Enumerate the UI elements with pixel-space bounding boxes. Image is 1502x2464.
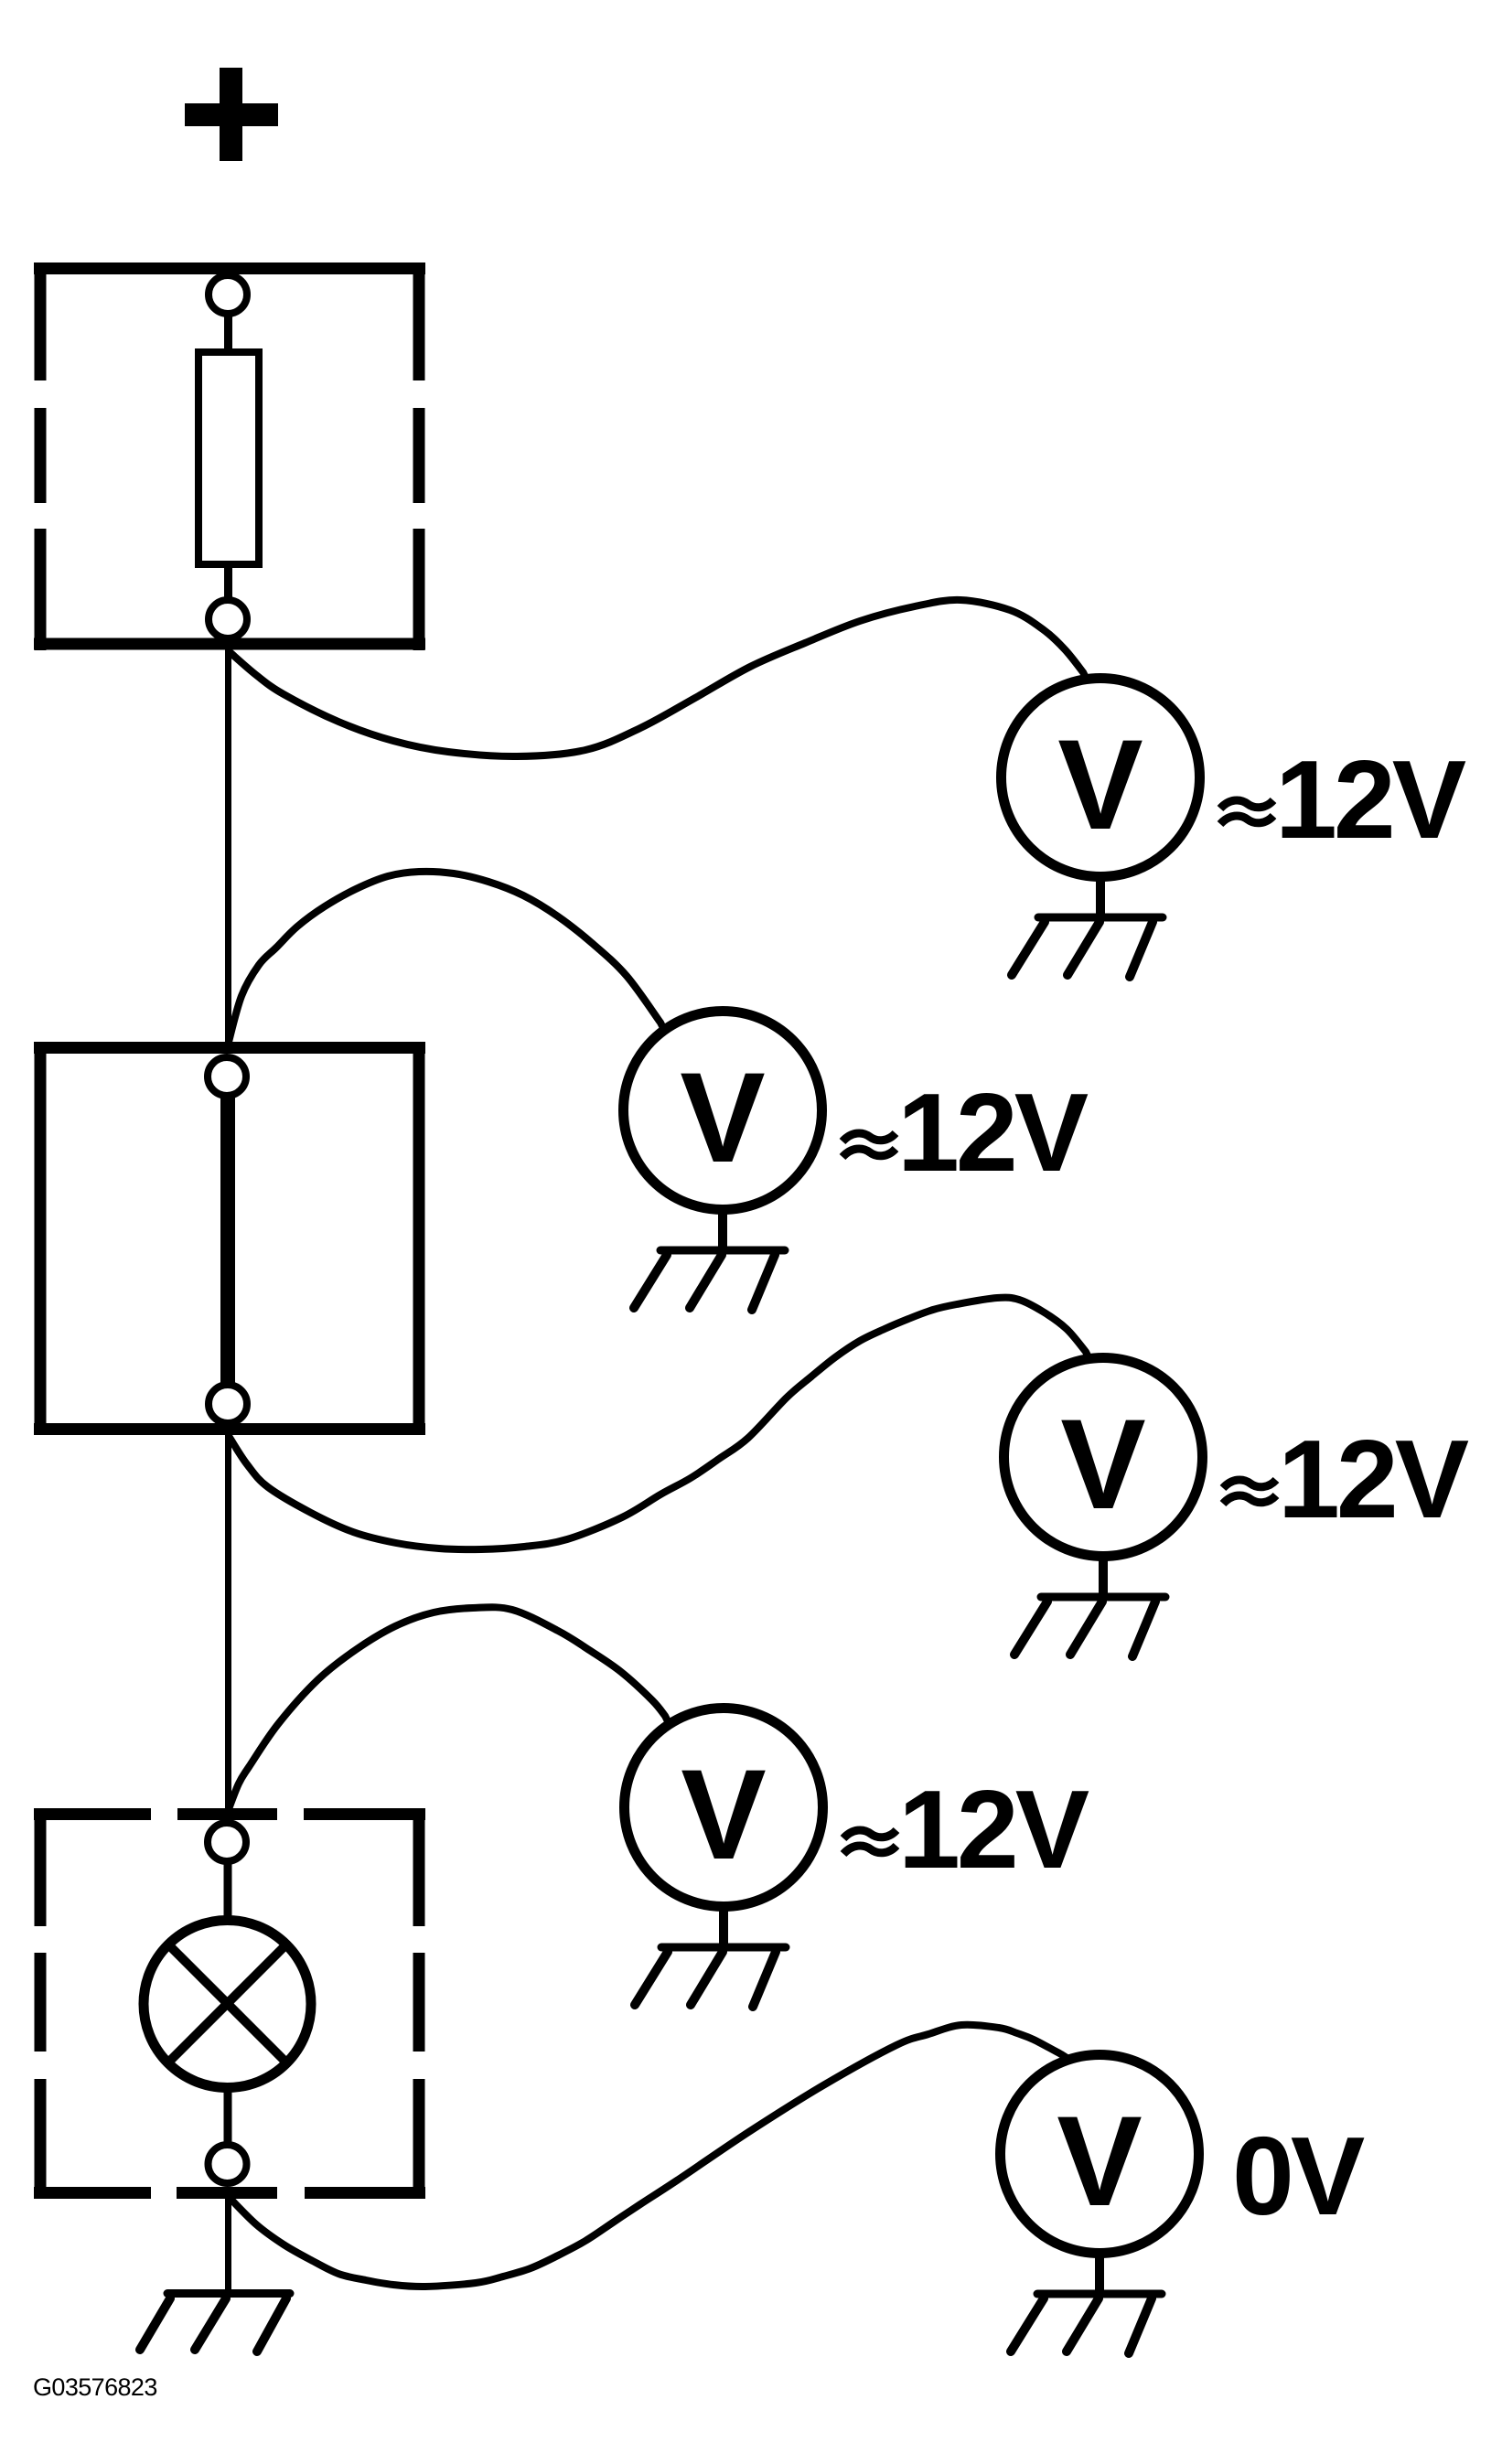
switch box (solid component box)	[34, 1042, 425, 1435]
terminal (lamp top pin)	[208, 1823, 246, 1861]
wire (node D to voltmeter V4)	[229, 1607, 669, 1809]
wire (fuse box to switch box)	[225, 638, 231, 1048]
fuse F1	[198, 352, 259, 564]
svg-text:12V: 12V	[898, 1767, 1089, 1891]
ground (voltmeter V2 ground)	[634, 1209, 785, 1310]
wire (terminal to lamp)	[224, 1859, 232, 1921]
svg-text:V: V	[680, 1045, 765, 1189]
label approx 12V (V4)	[843, 1767, 1089, 1891]
wire (terminal to fuse)	[224, 314, 232, 352]
voltmeter V1	[1002, 679, 1200, 877]
terminal (fuse bottom pin)	[209, 600, 247, 638]
voltmeter V3	[1004, 1358, 1203, 1557]
lamp box (dashed component box)	[34, 1808, 425, 2199]
svg-text:V: V	[1060, 1392, 1145, 1536]
svg-text:12V: 12V	[1275, 737, 1466, 862]
ground (voltmeter V1 ground)	[1012, 876, 1163, 977]
wire (node E to voltmeter V5)	[230, 2025, 1068, 2287]
wire (lamp box to ground)	[225, 2192, 231, 2292]
terminal (fuse top pin)	[209, 275, 247, 314]
ground (voltmeter V3 ground)	[1014, 1556, 1165, 1656]
switch S1 (closed contact bar)	[220, 1092, 235, 1387]
svg-text:V: V	[681, 1742, 766, 1886]
voltmeter V2	[624, 1012, 822, 1210]
terminal (lamp bottom pin)	[209, 2145, 247, 2183]
svg-text:G03576823: G03576823	[33, 2373, 157, 2401]
ground (circuit ground below lamp)	[140, 2294, 290, 2352]
ground (voltmeter V4 ground)	[635, 1906, 786, 2007]
wire (lamp to terminal)	[224, 2088, 232, 2147]
wire (node A to voltmeter V1)	[229, 600, 1087, 756]
terminal (switch bottom pin)	[209, 1385, 247, 1423]
wire (node B to voltmeter V2)	[228, 872, 664, 1045]
voltmeter V5	[1001, 2055, 1199, 2254]
wire (switch box to lamp box)	[225, 1429, 231, 1815]
battery positive +	[185, 68, 278, 161]
label approx 12V (V1)	[1220, 737, 1466, 862]
svg-text:V: V	[1057, 2089, 1142, 2233]
terminal (switch top pin)	[208, 1057, 246, 1096]
ground (voltmeter V5 ground)	[1011, 2253, 1162, 2353]
svg-text:12V: 12V	[1278, 1417, 1469, 1541]
svg-text:12V: 12V	[897, 1070, 1089, 1195]
svg-text:V: V	[1057, 712, 1143, 856]
wire (node C to voltmeter V3)	[229, 1298, 1089, 1550]
voltmeter V4	[625, 1709, 823, 1907]
label approx 12V (V2)	[842, 1070, 1089, 1195]
label approx 12V (V3)	[1223, 1417, 1469, 1541]
svg-text:0V: 0V	[1232, 2114, 1365, 2238]
wire (fuse to terminal)	[224, 564, 232, 602]
fuse box (dashed component box)	[34, 262, 425, 650]
lamp E1 (circle with X)	[144, 1921, 311, 2088]
